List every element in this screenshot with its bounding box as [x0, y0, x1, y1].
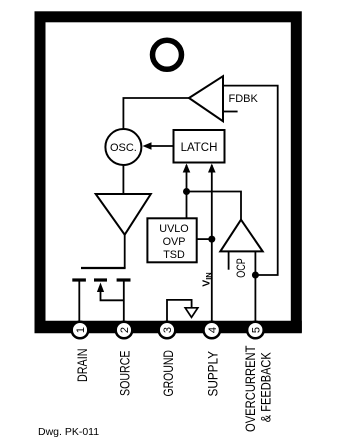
pin 1	[72, 322, 89, 339]
wire: drain to pin 1	[78, 282, 80, 323]
wire: body to source	[101, 290, 124, 300]
transistor Q1 body contact bar	[94, 278, 107, 281]
wire: FDBK reference input stub	[223, 111, 238, 113]
pin 4	[204, 322, 221, 339]
transistor Q1 source contact bar	[117, 278, 131, 281]
svg-text:TSD: TSD	[163, 249, 185, 261]
wire: driver to MOSFET gate	[124, 235, 126, 268]
svg-text:FDBK: FDBK	[229, 93, 259, 105]
svg-text:OCP: OCP	[234, 258, 248, 278]
svg-text:OVERCURRENT: OVERCURRENT	[243, 346, 258, 433]
arrowhead into OSC	[143, 142, 152, 149]
wire: OCP right input to pin 5	[254, 252, 256, 322]
wire: UVLO output up to LATCH	[186, 165, 188, 218]
wire: OCP left input stub	[228, 252, 230, 270]
arrowhead body arrow	[97, 283, 104, 293]
op-amp FDBK (feedback amplifier, points left)	[189, 76, 223, 121]
wire: FDBK output to OSC	[123, 98, 189, 130]
ground symbol	[185, 308, 198, 318]
svg-text:GROUND: GROUND	[161, 350, 176, 397]
arrowhead supply into LATCH	[208, 164, 216, 173]
svg-text:1: 1	[75, 327, 87, 333]
svg-text:LATCH: LATCH	[181, 142, 218, 154]
transistor Q1 gate bar	[81, 267, 126, 269]
wire: supply line pin 4 up to LATCH	[211, 165, 213, 322]
svg-text:4: 4	[207, 327, 219, 333]
pin 5	[247, 322, 264, 339]
svg-text:2: 2	[119, 327, 131, 333]
svg-text:DRAIN: DRAIN	[75, 349, 90, 383]
svg-text:UVLO: UVLO	[159, 223, 188, 235]
wire: UVLO to supply line	[197, 238, 212, 240]
svg-text:5: 5	[250, 327, 262, 333]
transistor Q1 drain contact bar	[72, 278, 86, 281]
wire: source to pin 2	[123, 282, 125, 323]
svg-text:SUPPLY: SUPPLY	[205, 351, 220, 397]
latch block LATCH	[174, 130, 225, 163]
pin 3	[159, 322, 176, 339]
protection block UVLO OVP TSD	[147, 218, 196, 262]
oscillator OSC	[105, 129, 141, 165]
wire: OSC to driver	[122, 165, 124, 194]
svg-text:OSC.: OSC.	[110, 142, 137, 154]
wire: feedback net from OCP up to FDBK input	[223, 86, 278, 275]
node: junction dot UVLO/OCP net	[183, 188, 190, 195]
wire: LATCH to OSC	[150, 145, 174, 147]
arrowhead UVLO into LATCH	[183, 164, 191, 173]
mounting hole circle	[153, 40, 182, 69]
svg-text:3: 3	[162, 327, 174, 333]
comparator OCP (points up)	[220, 220, 262, 252]
svg-text:OVP: OVP	[163, 236, 186, 248]
driver triangle (gate driver)	[96, 194, 151, 235]
svg-text:SOURCE: SOURCE	[117, 350, 132, 396]
svg-text:Dwg. PK-011: Dwg. PK-011	[38, 426, 99, 438]
node: junction dot supply/UVLO	[208, 236, 215, 243]
wire: junction to OCP output	[187, 192, 242, 220]
IC package border	[40, 17, 296, 327]
IC package border bottom bar (thicker)	[35, 321, 302, 334]
pin 2	[116, 322, 133, 339]
node: junction dot on OCP input net	[252, 272, 259, 279]
wire: pin 3 to ground symbol	[167, 300, 192, 322]
svg-text:& FEEDBACK: & FEEDBACK	[259, 352, 274, 422]
